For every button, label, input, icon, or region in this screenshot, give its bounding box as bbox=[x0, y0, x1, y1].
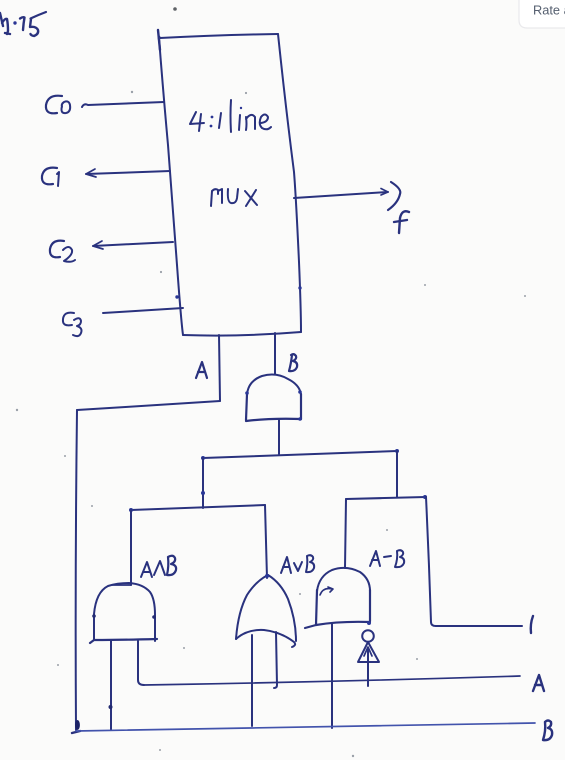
svg-text:Rate a: Rate a bbox=[533, 3, 565, 18]
input wire C1 bbox=[86, 171, 170, 174]
label C0 bbox=[46, 96, 70, 114]
Rate answer button (top-right UI) bbox=[519, 0, 565, 28]
output arrowhead bbox=[388, 182, 400, 210]
gate U3: OR (A OR B) bbox=[236, 574, 296, 647]
inverter U5 (bubble + triangle) bbox=[358, 630, 379, 662]
wire W3-left vertical to A-B gate bbox=[345, 499, 346, 568]
select A horizontal wire to left rail bbox=[77, 401, 220, 410]
U2 left input wire to B bus bbox=[110, 641, 112, 730]
label C1 bbox=[42, 168, 59, 186]
net B wire bbox=[76, 723, 535, 731]
gate G1: dome gate below B select bbox=[245, 375, 302, 421]
U2 right input wire to A net bbox=[138, 641, 144, 685]
wire W2 horizontal bbox=[131, 505, 265, 510]
U4 left input wire to B bus bbox=[331, 624, 333, 728]
wire W2-left vertical to AND gate bbox=[130, 510, 132, 585]
gate U2: AND (A AND B) bbox=[90, 583, 157, 643]
label f bbox=[394, 211, 409, 233]
G1 output wire down to W1 bbox=[278, 420, 280, 454]
label A OR B bbox=[281, 555, 314, 573]
wire W1 horizontal bbox=[203, 451, 397, 458]
input wire C0 bbox=[82, 102, 164, 107]
wire W3-right vertical down to node 1 bbox=[426, 497, 436, 626]
net A wire bbox=[144, 676, 520, 685]
wire W2-right vertical to OR gate bbox=[265, 505, 267, 578]
label B (net) bbox=[543, 721, 552, 741]
label A (net) bbox=[533, 675, 544, 691]
label A-B bbox=[370, 550, 404, 567]
net 1 wire bbox=[436, 625, 522, 627]
label 1 bbox=[531, 616, 533, 633]
label: MUX (inside mux) bbox=[211, 189, 257, 206]
U3 right input wire to A net bbox=[274, 632, 277, 688]
U3 left input wire to B bus bbox=[251, 635, 253, 726]
input wire C2 bbox=[93, 242, 173, 246]
label A AND B bbox=[141, 556, 176, 577]
wire W1-left vertical down bbox=[202, 458, 204, 508]
select B wire (vertical from MUX bottom) bbox=[274, 333, 276, 374]
select A wire (vertical from MUX bottom) bbox=[219, 335, 220, 401]
wire W3 horizontal bbox=[346, 497, 426, 499]
left rail wire down to B bus bbox=[76, 410, 77, 730]
title 4.15 bbox=[0, 12, 46, 36]
label B (select) bbox=[289, 354, 297, 371]
junction node at W1 left bbox=[201, 456, 205, 460]
label A (select) bbox=[196, 362, 207, 378]
output wire f bbox=[294, 192, 388, 198]
wire W1-right vertical down bbox=[396, 451, 398, 497]
mux U1: 4:1 line MUX box bbox=[158, 30, 302, 336]
input wire C3 bbox=[103, 308, 183, 313]
label C2 bbox=[50, 241, 75, 262]
U4 inner arrow mark bbox=[320, 587, 333, 595]
label: 4:1 line (inside mux) bbox=[190, 100, 271, 132]
U5 input wire from A net bbox=[367, 648, 369, 686]
gate U4: A-B gate bbox=[305, 568, 371, 628]
label C3 bbox=[63, 313, 82, 337]
junction node at W1 right bbox=[395, 449, 399, 453]
